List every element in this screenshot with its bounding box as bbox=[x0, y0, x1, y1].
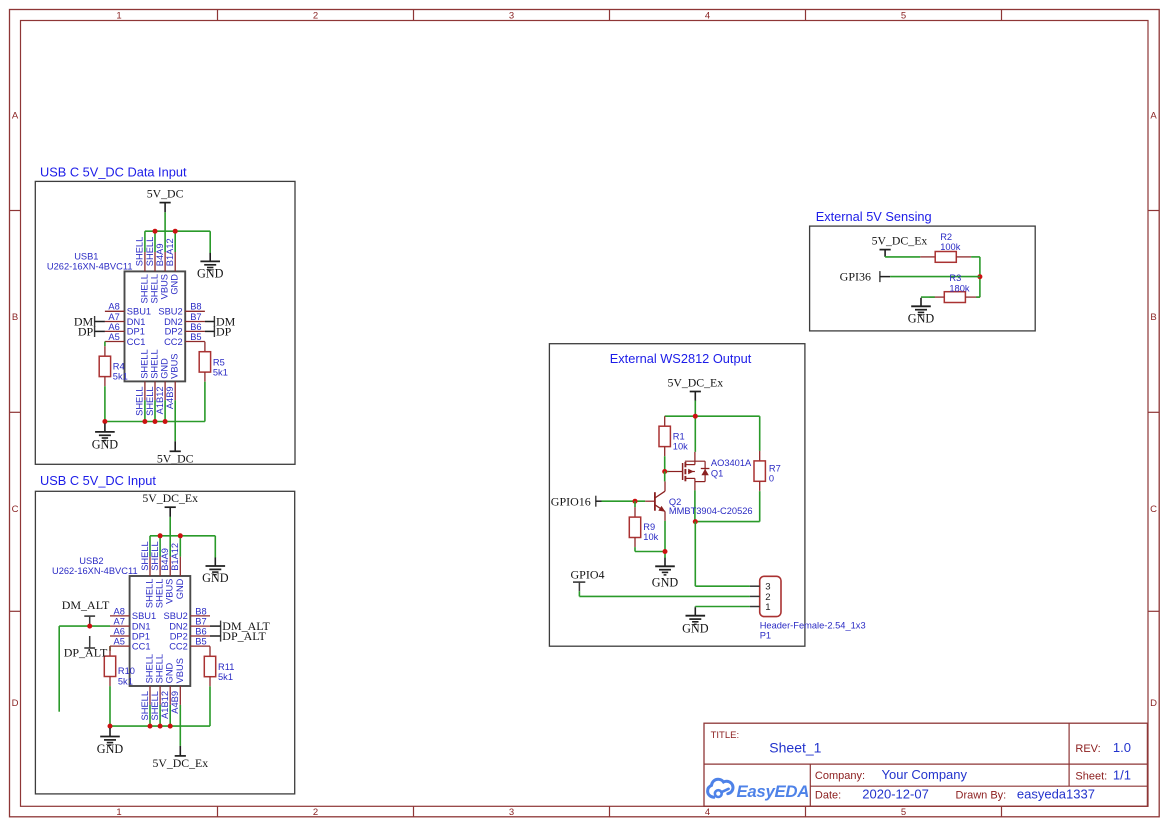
svg-text:SHELL: SHELL bbox=[150, 349, 160, 378]
svg-text:DN1: DN1 bbox=[127, 317, 146, 327]
wire VBUS bottom pin to 5V_DC flag bbox=[174, 400, 176, 441]
svg-text:SBU1: SBU1 bbox=[132, 611, 156, 621]
svg-text:CC2: CC2 bbox=[169, 641, 188, 651]
ground GND (bottom of USB2) bbox=[97, 728, 124, 756]
svg-text:A: A bbox=[12, 111, 19, 122]
resistor R3 180k bbox=[929, 273, 980, 303]
svg-text:5: 5 bbox=[901, 807, 906, 818]
wire CC1 pin to R10 bbox=[109, 646, 111, 651]
pin names inside USB1 bbox=[127, 274, 183, 379]
svg-text:D: D bbox=[12, 698, 19, 709]
power flag 5V_DC_Ex (WS2812 section) bbox=[667, 376, 723, 402]
section frame: External 5V Sensing bbox=[810, 226, 1036, 331]
resistor R5 5k1 bbox=[199, 342, 228, 382]
svg-text:A1B12: A1B12 bbox=[155, 386, 165, 414]
svg-text:100k: 100k bbox=[940, 242, 961, 252]
svg-text:10k: 10k bbox=[673, 442, 688, 452]
svg-text:SHELL: SHELL bbox=[150, 541, 160, 570]
ruler row labels bbox=[12, 111, 1158, 710]
svg-text:GND: GND bbox=[165, 662, 175, 683]
wire 5V rail (R1 / Q1 / R7) bbox=[665, 416, 760, 452]
svg-text:1.0: 1.0 bbox=[1113, 740, 1131, 755]
wire top shell/gnd bus of USB1 bbox=[145, 231, 210, 253]
svg-text:B7: B7 bbox=[195, 617, 206, 627]
svg-text:USB1: USB1 bbox=[74, 251, 98, 261]
svg-text:Header-Female-2.54_1x3: Header-Female-2.54_1x3 bbox=[760, 620, 866, 630]
svg-text:2: 2 bbox=[313, 11, 318, 22]
pin numbers left side of USB2 (A8 A7 A6 A5) bbox=[114, 606, 125, 646]
svg-text:DP: DP bbox=[216, 325, 232, 339]
wire R11 to bottom bus bbox=[209, 686, 211, 726]
svg-text:A7: A7 bbox=[114, 617, 125, 627]
svg-text:DP2: DP2 bbox=[170, 631, 188, 641]
svg-text:D: D bbox=[1150, 698, 1157, 709]
wire CC1 pin to R4 bbox=[104, 342, 106, 347]
svg-text:10k: 10k bbox=[643, 532, 658, 542]
pin numbers bottom of USB1 (SHELL SHELL A1B12 A4B9) bbox=[135, 386, 175, 415]
wire bottom shell/gnd bus of USB2 bbox=[110, 705, 210, 726]
svg-text:A6: A6 bbox=[108, 322, 119, 332]
svg-text:A5: A5 bbox=[114, 637, 125, 647]
resistor R11 5k1 bbox=[204, 646, 234, 686]
resistor R7 0 bbox=[754, 451, 781, 491]
svg-text:B5: B5 bbox=[195, 637, 206, 647]
svg-text:5k1: 5k1 bbox=[118, 676, 133, 686]
svg-text:External WS2812 Output: External WS2812 Output bbox=[610, 351, 752, 366]
svg-text:R7: R7 bbox=[769, 463, 781, 473]
svg-text:SHELL: SHELL bbox=[145, 654, 155, 683]
svg-text:GND: GND bbox=[97, 742, 124, 756]
svg-text:MMBT3904-C20526: MMBT3904-C20526 bbox=[669, 506, 753, 516]
wire R4 to bottom bus bbox=[104, 386, 106, 421]
pin names inside USB2 bbox=[132, 578, 188, 683]
svg-text:VBUS: VBUS bbox=[170, 353, 180, 378]
ground GND (top right of USB1) bbox=[197, 253, 224, 281]
svg-text:B8: B8 bbox=[190, 302, 201, 312]
resistor R1 10k bbox=[659, 416, 688, 456]
svg-text:0: 0 bbox=[769, 473, 774, 483]
svg-text:R4: R4 bbox=[113, 362, 125, 372]
power flag 5V_DC (top of USB1) bbox=[147, 187, 184, 213]
port DP (left of USB1) bbox=[78, 325, 105, 339]
svg-text:DP1: DP1 bbox=[132, 631, 150, 641]
svg-text:5V_DC_Ex: 5V_DC_Ex bbox=[152, 756, 208, 770]
junction dots on top bus bbox=[158, 533, 183, 538]
svg-text:5: 5 bbox=[901, 11, 906, 22]
svg-text:Q1: Q1 bbox=[711, 468, 723, 478]
ground GND (top right of USB2) bbox=[202, 558, 229, 586]
svg-text:3: 3 bbox=[509, 807, 514, 818]
svg-text:4: 4 bbox=[705, 807, 710, 818]
svg-text:Date:: Date: bbox=[815, 790, 841, 802]
wire GPIO4 to header pin 2 bbox=[579, 591, 750, 596]
ground GND (below header P1) bbox=[682, 607, 709, 635]
svg-text:DN1: DN1 bbox=[132, 621, 151, 631]
svg-text:AO3401A: AO3401A bbox=[711, 458, 752, 468]
svg-text:DN2: DN2 bbox=[169, 621, 188, 631]
svg-text:SHELL: SHELL bbox=[150, 691, 160, 720]
wire Q2 collector to gate node bbox=[664, 472, 666, 482]
port GPIO16 bbox=[551, 494, 602, 508]
svg-text:GND: GND bbox=[197, 267, 224, 281]
pin numbers top of USB1 (SHELL SHELL B4A9 B1A12) bbox=[135, 237, 175, 266]
svg-text:P1: P1 bbox=[760, 631, 771, 641]
svg-text:SHELL: SHELL bbox=[155, 579, 165, 608]
svg-text:180k: 180k bbox=[949, 283, 970, 293]
svg-text:DP2: DP2 bbox=[165, 327, 183, 337]
svg-text:SBU2: SBU2 bbox=[164, 611, 188, 621]
ground GND (below Q2) bbox=[652, 558, 679, 590]
wire bottom shell/gnd bus of USB1 bbox=[105, 400, 205, 421]
svg-text:DM_ALT: DM_ALT bbox=[62, 598, 110, 612]
wire 5V_DC_Ex to R2 bbox=[885, 255, 920, 258]
svg-text:B6: B6 bbox=[195, 626, 206, 636]
svg-text:DP_ALT: DP_ALT bbox=[222, 629, 266, 643]
svg-text:SHELL: SHELL bbox=[139, 349, 149, 378]
power flag 5V_DC_Ex (bottom of USB2) bbox=[152, 746, 208, 770]
svg-text:A1B12: A1B12 bbox=[160, 691, 170, 719]
svg-text:USB C 5V_DC Input: USB C 5V_DC Input bbox=[40, 473, 156, 488]
svg-text:SHELL: SHELL bbox=[145, 237, 155, 266]
svg-text:1: 1 bbox=[116, 807, 121, 818]
wire R1 to Q1 gate node bbox=[665, 456, 669, 471]
svg-text:GPIO4: GPIO4 bbox=[571, 568, 605, 582]
svg-text:SBU1: SBU1 bbox=[127, 307, 151, 317]
section frame: USB C 5V_DC Input bbox=[35, 491, 294, 794]
svg-text:TITLE:: TITLE: bbox=[711, 730, 740, 741]
wire GPI36 to divider node bbox=[890, 276, 980, 278]
svg-text:SBU2: SBU2 bbox=[158, 307, 182, 317]
junction dot emitter/gnd node bbox=[663, 549, 668, 554]
svg-text:5V_DC: 5V_DC bbox=[147, 187, 184, 201]
port DM (left of USB1) bbox=[74, 315, 105, 329]
wire VBUS bottom pin to 5V_DC_Ex flag bbox=[179, 705, 181, 746]
svg-text:1: 1 bbox=[116, 11, 121, 22]
svg-text:GND: GND bbox=[175, 578, 185, 599]
svg-text:A8: A8 bbox=[108, 302, 119, 312]
resistor R2 100k bbox=[920, 232, 971, 262]
svg-text:R11: R11 bbox=[218, 662, 234, 672]
svg-text:Sheet_1: Sheet_1 bbox=[769, 739, 821, 755]
wire R3 right to divider node bbox=[976, 296, 980, 298]
svg-text:R10: R10 bbox=[118, 666, 135, 676]
svg-text:CC2: CC2 bbox=[164, 337, 183, 347]
section frame: USB C 5V_DC Data Input bbox=[35, 181, 295, 464]
resistor R9 10k bbox=[629, 507, 658, 547]
svg-text:Your Company: Your Company bbox=[882, 767, 968, 782]
svg-text:SHELL: SHELL bbox=[140, 691, 150, 720]
junction dot DM_ALT tap bbox=[87, 624, 92, 629]
wire Q2 emitter down bbox=[664, 521, 666, 552]
svg-text:GPI36: GPI36 bbox=[840, 269, 871, 283]
svg-text:DP1: DP1 bbox=[127, 327, 145, 337]
resistor R4 5k1 bbox=[99, 346, 128, 386]
svg-text:R9: R9 bbox=[643, 522, 655, 532]
resistor R10 5k1 bbox=[104, 646, 135, 686]
ground GND (bottom of USB1) bbox=[92, 423, 119, 451]
svg-text:SHELL: SHELL bbox=[135, 237, 145, 266]
svg-text:SHELL: SHELL bbox=[145, 386, 155, 415]
svg-text:1/1: 1/1 bbox=[1113, 767, 1131, 782]
svg-text:CC1: CC1 bbox=[127, 337, 146, 347]
junction dots on bottom bus bbox=[108, 724, 173, 729]
svg-text:5k1: 5k1 bbox=[213, 367, 228, 377]
svg-text:VBUS: VBUS bbox=[160, 274, 170, 299]
wire DN1 of USB2 to DM_ALT (dangling left drop) bbox=[59, 626, 110, 712]
pin numbers left side of USB1 (A8 A7 A6 A5) bbox=[108, 302, 119, 342]
svg-text:GND: GND bbox=[160, 358, 170, 379]
junction dots on top bus bbox=[153, 229, 178, 234]
svg-text:2020-12-07: 2020-12-07 bbox=[862, 787, 929, 802]
svg-text:DP_ALT: DP_ALT bbox=[64, 645, 108, 659]
wire R7 to output node bbox=[759, 491, 761, 521]
svg-text:5k1: 5k1 bbox=[113, 372, 128, 382]
wire R9 top bbox=[634, 501, 636, 507]
svg-text:VBUS: VBUS bbox=[165, 579, 175, 604]
svg-text:VBUS: VBUS bbox=[175, 658, 185, 683]
svg-text:REV:: REV: bbox=[1075, 743, 1100, 755]
wire net 5V_DC to VBUS pin of USB1 bbox=[164, 212, 166, 231]
port GPI36 bbox=[840, 269, 890, 283]
power flag 5V_DC_Ex (sensing section) bbox=[872, 234, 928, 257]
transistor Q1 AO3401A (P-MOSFET) bbox=[668, 452, 752, 491]
wire net 5V_DC_Ex to VBUS pin of USB2 bbox=[169, 517, 171, 536]
svg-text:B4A9: B4A9 bbox=[160, 548, 170, 571]
svg-text:5V_DC: 5V_DC bbox=[157, 451, 194, 465]
svg-text:SHELL: SHELL bbox=[135, 386, 145, 415]
title block texts bbox=[711, 730, 1131, 802]
junction dot output node bbox=[693, 519, 698, 524]
svg-text:Sheet:: Sheet: bbox=[1075, 770, 1107, 782]
svg-text:4: 4 bbox=[705, 11, 710, 22]
net flag GPIO4 bbox=[571, 568, 605, 592]
svg-text:SHELL: SHELL bbox=[140, 541, 150, 570]
svg-text:U262-16XN-4BVC11: U262-16XN-4BVC11 bbox=[52, 566, 138, 576]
wire R3 left to GND bbox=[921, 296, 935, 298]
svg-text:SHELL: SHELL bbox=[155, 654, 165, 683]
wire output node to R7 bottom bbox=[695, 521, 759, 523]
port DM_ALT (right of USB2) bbox=[210, 619, 271, 633]
EasyEDA logo bbox=[708, 779, 809, 801]
USB connector USB2 U262-16XN-4BVC11 bbox=[52, 556, 210, 705]
svg-text:5k1: 5k1 bbox=[218, 672, 233, 682]
svg-text:SHELL: SHELL bbox=[150, 274, 160, 303]
power flag 5V_DC (bottom of USB1) bbox=[157, 441, 194, 465]
svg-text:B: B bbox=[12, 312, 18, 323]
svg-text:A8: A8 bbox=[114, 606, 125, 616]
transistor Q2 MMBT3904-C20526 (NPN) bbox=[645, 481, 752, 521]
pin numbers right side of USB2 (B8 B7 B6 B5) bbox=[195, 606, 206, 646]
svg-text:USB C 5V_DC Data Input: USB C 5V_DC Data Input bbox=[40, 165, 187, 180]
svg-text:A6: A6 bbox=[114, 626, 125, 636]
svg-text:A4B9: A4B9 bbox=[170, 691, 180, 714]
svg-text:B6: B6 bbox=[190, 322, 201, 332]
svg-text:3: 3 bbox=[509, 11, 514, 22]
svg-text:EasyEDA: EasyEDA bbox=[737, 782, 810, 801]
svg-text:easyeda1337: easyeda1337 bbox=[1017, 787, 1095, 802]
svg-text:5V_DC_Ex: 5V_DC_Ex bbox=[667, 376, 723, 390]
junction dot divider node bbox=[977, 274, 982, 279]
junction dot gate node bbox=[662, 469, 667, 474]
svg-text:B5: B5 bbox=[190, 332, 201, 342]
svg-text:GND: GND bbox=[908, 312, 935, 326]
svg-text:B7: B7 bbox=[190, 312, 201, 322]
connector P1 Header-Female-2.54_1x3 bbox=[750, 576, 866, 640]
svg-text:Drawn By:: Drawn By: bbox=[956, 790, 1007, 802]
wire R5 to bottom bus bbox=[204, 382, 206, 422]
junction dot 5V rail bbox=[693, 414, 698, 419]
svg-text:External 5V Sensing: External 5V Sensing bbox=[816, 209, 932, 224]
wire 5V_DC_Ex down to rail bbox=[694, 401, 696, 417]
svg-text:B4A9: B4A9 bbox=[155, 243, 165, 266]
svg-text:B: B bbox=[1150, 312, 1156, 323]
svg-text:B1A12: B1A12 bbox=[165, 238, 175, 266]
section frame: External WS2812 Output bbox=[549, 344, 805, 647]
svg-text:C: C bbox=[1150, 504, 1157, 515]
ruler column labels bbox=[116, 11, 906, 819]
svg-text:C: C bbox=[12, 504, 19, 515]
wire R9 bottom to emitter node bbox=[635, 547, 665, 558]
svg-text:R2: R2 bbox=[940, 232, 952, 242]
svg-text:5V_DC_Ex: 5V_DC_Ex bbox=[142, 491, 198, 505]
svg-text:DN2: DN2 bbox=[164, 317, 183, 327]
port DP_ALT (left of USB2) bbox=[64, 636, 108, 659]
pin numbers top of USB2 (SHELL SHELL B4A9 B1A12) bbox=[140, 541, 180, 570]
svg-text:SHELL: SHELL bbox=[139, 274, 149, 303]
svg-text:2: 2 bbox=[313, 807, 318, 818]
svg-text:SHELL: SHELL bbox=[145, 579, 155, 608]
svg-text:USB2: USB2 bbox=[79, 556, 103, 566]
USB connector USB1 U262-16XN-4BVC11 bbox=[47, 251, 205, 400]
svg-text:U262-16XN-4BVC11: U262-16XN-4BVC11 bbox=[47, 262, 133, 272]
wire top shell/gnd bus of USB2 bbox=[150, 536, 215, 558]
port DP (right of USB1) bbox=[205, 325, 232, 339]
power flag 5V_DC_Ex (top of USB2) bbox=[142, 491, 198, 517]
pin numbers bottom of USB2 (SHELL SHELL A1B12 A4B9) bbox=[140, 691, 180, 720]
wire Q1 drain to output node bbox=[694, 490, 696, 521]
svg-text:GND: GND bbox=[170, 274, 180, 295]
svg-text:5V_DC_Ex: 5V_DC_Ex bbox=[872, 234, 928, 248]
svg-text:A: A bbox=[1150, 111, 1157, 122]
wire GND to header pin 1 bbox=[695, 606, 750, 609]
svg-text:GND: GND bbox=[652, 576, 679, 590]
wire output node to header pin 3 bbox=[695, 522, 750, 587]
pin numbers right side of USB1 (B8 B7 B6 B5) bbox=[190, 302, 201, 342]
junction dots on bottom bus bbox=[102, 419, 167, 424]
svg-text:Company:: Company: bbox=[815, 770, 865, 782]
junction dot base node bbox=[633, 499, 638, 504]
svg-text:R5: R5 bbox=[213, 357, 225, 367]
port DM_ALT (left of USB2) bbox=[62, 598, 110, 626]
port DM (right of USB1) bbox=[205, 315, 236, 329]
svg-text:GND: GND bbox=[202, 571, 229, 585]
svg-text:R3: R3 bbox=[949, 273, 961, 283]
svg-text:GND: GND bbox=[682, 622, 709, 636]
svg-text:CC1: CC1 bbox=[132, 641, 151, 651]
svg-text:GPIO16: GPIO16 bbox=[551, 494, 591, 508]
svg-text:DP: DP bbox=[78, 325, 94, 339]
wire GPIO16 to Q2 base bbox=[602, 500, 646, 502]
svg-text:A7: A7 bbox=[108, 312, 119, 322]
svg-text:A4B9: A4B9 bbox=[165, 386, 175, 409]
svg-text:B1A12: B1A12 bbox=[170, 543, 180, 571]
svg-text:A5: A5 bbox=[108, 332, 119, 342]
wire R10 to bottom bus bbox=[109, 686, 111, 726]
svg-text:R1: R1 bbox=[673, 432, 685, 442]
title block frame bbox=[704, 723, 1147, 806]
wire R2 to divider node bbox=[971, 257, 980, 297]
ground GND (sensing section) bbox=[908, 298, 935, 326]
svg-text:B8: B8 bbox=[195, 606, 206, 616]
port DP_ALT (right of USB2) bbox=[210, 629, 267, 643]
svg-text:GND: GND bbox=[92, 438, 119, 452]
svg-text:1: 1 bbox=[765, 602, 770, 613]
